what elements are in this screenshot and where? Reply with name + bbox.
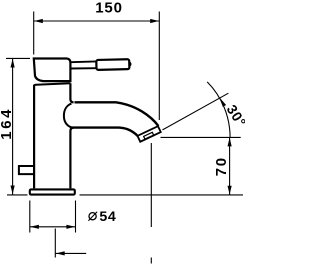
- body right edge lower: [70, 128, 73, 189]
- dim 30deg leader line along outlet axis: [163, 93, 229, 130]
- dim 70 extension line at outlet level: [161, 136, 241, 138]
- dim 150 arrow left: [34, 19, 43, 23]
- dim diameter 54 extension line right: [75, 201, 77, 233]
- lever grip end nub: [129, 62, 132, 65]
- dim 70 arrow top: [228, 138, 232, 147]
- vertical centerline below base: [54, 229, 56, 258]
- dim 164 dimension line: [12, 59, 14, 195]
- faucet head (cartridge cap): [34, 59, 71, 82]
- dim 70 dimension line: [229, 137, 231, 194]
- spout bottom edge with bend: [71, 128, 138, 137]
- aerator insert: [144, 132, 154, 139]
- deck line: [80, 194, 244, 196]
- spout back cap curve: [64, 104, 72, 128]
- dim diameter 54 extension line left: [29, 201, 31, 233]
- dim 30deg arrowhead on arc: [219, 97, 226, 107]
- bottom leader line: [56, 252, 87, 254]
- spout centerline lower dash: [150, 258, 152, 264]
- bottom leader arrowhead: [56, 251, 65, 255]
- dim diameter 54 dimension line: [30, 226, 76, 228]
- svg-text:54: 54: [99, 209, 116, 225]
- spout top edge with bend: [75, 102, 159, 126]
- body top rim (tilted joint line): [34, 83, 71, 86]
- svg-text:164: 164: [0, 107, 15, 140]
- dim 164 arrow bottom: [11, 186, 15, 195]
- dim 164 extension line bottom: [7, 194, 28, 196]
- spout centerline (axis of outlet): [150, 143, 152, 227]
- dim 164 extension line top: [6, 57, 30, 59]
- dim 150 arrow right: [150, 19, 159, 23]
- dim diameter 54 arrow left: [30, 225, 39, 229]
- base plinth: [30, 189, 75, 194]
- dim 150 extension line right: [158, 12, 160, 121]
- svg-text:150: 150: [95, 0, 122, 17]
- dim 150 extension line left: [33, 12, 35, 55]
- dim 150 dimension line: [34, 20, 160, 22]
- dim diameter 54 label symbol: [89, 213, 96, 220]
- lever grip: [96, 59, 129, 70]
- lever rod bottom line: [70, 67, 96, 69]
- aerator band at spout tip: [137, 126, 160, 142]
- dim 30deg arc: [207, 82, 230, 137]
- dim 164 arrow top: [11, 59, 15, 68]
- fixing tab on left of shank: [19, 166, 34, 174]
- dim 70 arrow bottom: [228, 186, 232, 195]
- body left edge: [33, 86, 35, 189]
- body right edge upper: [70, 83, 73, 102]
- lever rod top line: [70, 60, 96, 63]
- svg-text:70: 70: [213, 156, 230, 176]
- dim diameter 54 arrow right: [66, 225, 75, 229]
